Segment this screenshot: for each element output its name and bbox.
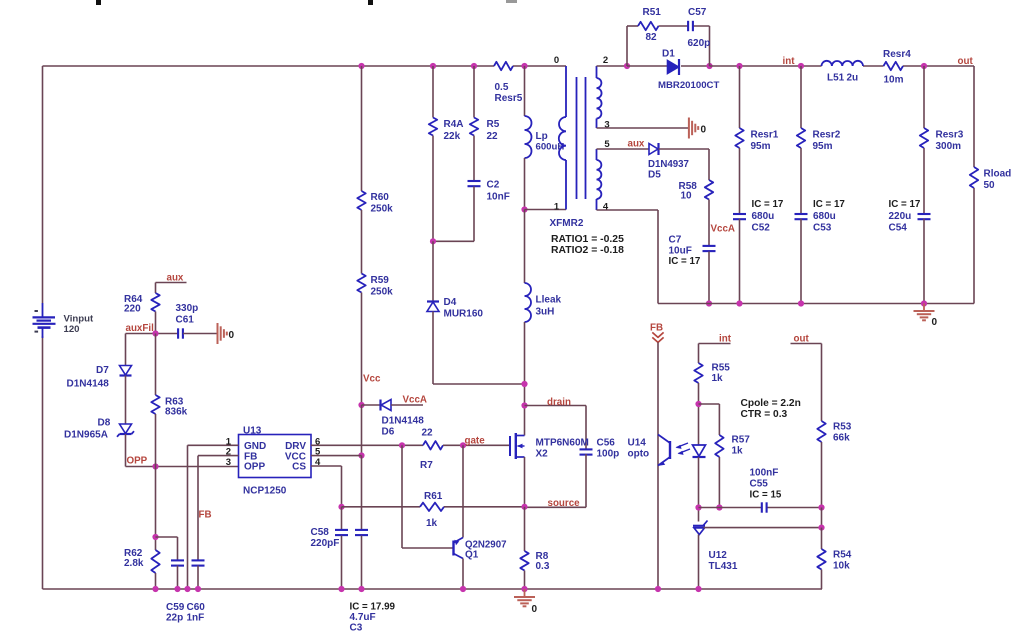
wire R63 branch: [155, 334, 157, 396]
wire Lleak upper: [524, 210, 526, 284]
svg-text:L51: L51: [827, 73, 845, 84]
net label int right: [719, 334, 732, 345]
net label auxFil: [126, 323, 155, 334]
node C3 ground: [358, 586, 364, 592]
wire R54 to rail: [821, 570, 823, 590]
wire R60 branch upper: [361, 66, 363, 191]
wire OPP to R62: [155, 467, 157, 551]
resistor Resr2 95m: [797, 128, 841, 152]
pin 0 label: [554, 55, 559, 66]
svg-text:Resr4: Resr4: [883, 49, 911, 60]
node ref junction: [818, 525, 824, 531]
wire pin2 to snubber: [597, 65, 628, 67]
svg-text:2u: 2u: [847, 73, 859, 84]
wire R5 upper: [473, 66, 475, 118]
wire Resr2 to C53: [800, 148, 802, 215]
wire TL431 anode to rail: [698, 535, 700, 590]
shunt regulator U12 TL431: [693, 521, 738, 573]
wire DRV pin6: [311, 444, 423, 446]
svg-text:D1N4937: D1N4937: [648, 159, 689, 170]
svg-text:opto: opto: [628, 449, 650, 460]
net label FB secondary: [650, 323, 663, 334]
label Vinput 120: [64, 314, 94, 335]
svg-text:aux: aux: [628, 139, 645, 150]
resistor R62 2.8k: [124, 548, 160, 573]
svg-text:XFMR2: XFMR2: [550, 218, 584, 229]
net label gate: [465, 436, 486, 447]
svg-text:3: 3: [226, 457, 231, 468]
wire Resr2 branch: [800, 66, 802, 128]
wire bottom ground rail: [43, 588, 823, 590]
transformer XFMR2 primary winding: [559, 66, 566, 210]
svg-text:D1N4148: D1N4148: [382, 416, 425, 427]
node top rail R4A: [430, 63, 436, 69]
op-amp U13 NCP1250 body: [239, 426, 312, 497]
wire Q1 base branch: [402, 445, 454, 548]
wire top rail: [43, 65, 567, 67]
svg-text:2: 2: [603, 55, 608, 66]
wire auxFil node: [126, 333, 178, 335]
capacitor C59 22p: [166, 560, 185, 623]
diode D4 MUR160: [427, 297, 483, 320]
net label aux primary: [167, 273, 184, 284]
pin 4 number: [315, 457, 321, 468]
wire C60 to rail: [197, 566, 199, 590]
svg-text:R57: R57: [732, 435, 751, 446]
net label aux secondary: [628, 139, 645, 150]
resistor R7 22: [420, 428, 443, 472]
svg-text:IC = 17: IC = 17: [669, 256, 701, 267]
wire Vcc to D6: [362, 404, 381, 406]
resistor Resr5 0.5: [494, 62, 523, 104]
node C58 rail: [338, 586, 344, 592]
resistor R51 82: [638, 7, 661, 43]
wire secondary bottom rail: [658, 303, 974, 305]
node opto emitter rail: [655, 586, 661, 592]
label Cpole CTR: [741, 398, 801, 420]
wire drain stub to C56: [525, 406, 587, 451]
capacitor C60 1nF: [187, 560, 206, 623]
net label FB primary: [199, 510, 212, 521]
net label drain: [547, 397, 571, 408]
svg-text:R55: R55: [712, 363, 731, 374]
wire D5 to R58: [659, 149, 710, 180]
svg-text:MUR160: MUR160: [444, 309, 484, 320]
resistor R53 66k: [817, 421, 851, 444]
svg-text:C52: C52: [752, 223, 771, 234]
wire C52 lower: [739, 219, 741, 304]
svg-text:Cpole = 2.2n: Cpole = 2.2n: [741, 398, 801, 409]
node R62 rail: [152, 586, 158, 592]
resistor R8 0.3: [520, 551, 550, 572]
inductor Lp 600uH: [525, 116, 565, 158]
wire Lp lower: [524, 158, 526, 210]
net label out top: [958, 56, 974, 67]
svg-text:22: 22: [487, 131, 499, 142]
svg-text:1: 1: [554, 202, 560, 213]
diode D5 D1N4937: [648, 143, 689, 181]
svg-text:OPP: OPP: [127, 456, 148, 467]
node snubber right: [706, 63, 712, 69]
svg-text:1k: 1k: [732, 446, 744, 457]
svg-text:D5: D5: [648, 170, 661, 181]
svg-text:10uF: 10uF: [669, 246, 692, 257]
capacitor C57 620p: [688, 7, 711, 49]
svg-text:D8: D8: [98, 418, 111, 429]
node R53 C55 junction: [818, 504, 824, 510]
svg-text:R54: R54: [833, 550, 852, 561]
svg-text:X2: X2: [536, 449, 549, 460]
label RATIO2: [551, 245, 624, 256]
node Resr2 top: [798, 63, 804, 69]
svg-text:VccA: VccA: [403, 395, 428, 406]
label RATIO1: [551, 234, 624, 245]
svg-text:R51: R51: [643, 7, 662, 18]
node top rail / R60 branch: [358, 63, 364, 69]
wire D4 to drain node: [433, 312, 525, 385]
svg-text:C7: C7: [669, 235, 682, 246]
node C59 rail: [174, 586, 180, 592]
wire C54 lower: [923, 219, 925, 304]
svg-text:R4A: R4A: [444, 119, 464, 130]
svg-text:C3: C3: [350, 623, 363, 634]
wire D7 to D8: [125, 376, 127, 425]
wire C59 to rail: [177, 566, 179, 590]
svg-text:22: 22: [422, 428, 434, 439]
wire D6 to VccA stub: [391, 404, 423, 406]
svg-text:0: 0: [701, 125, 707, 136]
svg-text:U14: U14: [628, 438, 647, 449]
wire Resr3 branch: [923, 66, 925, 128]
svg-text:MBR20100CT: MBR20100CT: [658, 80, 719, 91]
svg-text:4.7uF: 4.7uF: [350, 612, 376, 623]
wire R62 to rail: [155, 573, 157, 589]
svg-text:Resr2: Resr2: [813, 130, 841, 141]
wire Q1 collector to rail: [462, 559, 464, 590]
label XFMR2: [550, 218, 584, 229]
wire out stub: [791, 344, 822, 422]
transformer XFMR2 core: [577, 77, 586, 199]
resistor R63 836k: [151, 395, 187, 418]
node auxFil junction: [152, 330, 158, 336]
capacitor C61 330p: [176, 303, 199, 339]
pin 4 label: [603, 202, 609, 213]
svg-text:D1: D1: [662, 49, 675, 60]
wire R61 CS line: [342, 506, 421, 508]
svg-text:10nF: 10nF: [487, 192, 510, 203]
pin 3 number: [226, 457, 231, 468]
svg-text:66k: 66k: [833, 433, 850, 444]
svg-text:22k: 22k: [444, 131, 461, 142]
wire D8 to OPP: [125, 434, 127, 467]
capacitor C58 220pF: [311, 507, 349, 549]
svg-text:C59: C59: [166, 602, 185, 613]
svg-text:R60: R60: [371, 192, 390, 203]
svg-text:U13: U13: [243, 426, 262, 437]
svg-text:IC = 17: IC = 17: [813, 199, 845, 210]
node C52 rail: [736, 300, 742, 306]
wire R8 to rail: [524, 571, 526, 590]
svg-text:IC = 17.99: IC = 17.99: [350, 602, 396, 613]
node R55 R57 junction: [695, 401, 701, 407]
svg-text:FB: FB: [199, 510, 212, 521]
cropped title text remnants: [96, 0, 517, 5]
svg-text:C54: C54: [889, 223, 908, 234]
wire to R57: [699, 404, 720, 435]
svg-text:3: 3: [604, 120, 609, 131]
net label VccA left: [403, 395, 428, 406]
wire Resr1 to C52: [739, 148, 741, 215]
svg-text:CS: CS: [292, 462, 306, 473]
svg-text:D1N965A: D1N965A: [64, 430, 108, 441]
node top rail R5: [471, 63, 477, 69]
transformer XFMR2 secondary winding: [597, 66, 602, 128]
svg-text:CTR = 0.3: CTR = 0.3: [741, 409, 788, 420]
capacitor C7 10uF: [669, 235, 716, 268]
wire VCC pin5: [311, 455, 362, 457]
ground C61 0: [218, 323, 235, 344]
net label int top: [783, 56, 796, 67]
svg-text:100p: 100p: [597, 449, 620, 460]
svg-text:22p: 22p: [166, 613, 183, 624]
svg-text:R7: R7: [420, 460, 433, 471]
svg-text:2.8k: 2.8k: [124, 558, 144, 569]
pin 5 label: [604, 139, 610, 150]
diode D7 D1N4148: [67, 365, 132, 390]
wire GND pin1: [188, 445, 239, 589]
wire TL431 ref line: [704, 527, 822, 529]
capacitor C52 680u: [733, 199, 784, 234]
svg-text:Lp: Lp: [536, 131, 548, 142]
net label Vcc: [363, 374, 381, 385]
inductor Lleak 3uH: [525, 283, 562, 322]
resistor R57 1k: [715, 435, 750, 458]
diode D1 MBR20100CT: [658, 49, 719, 92]
svg-text:out: out: [958, 56, 974, 67]
svg-text:C61: C61: [176, 315, 195, 326]
svg-text:250k: 250k: [371, 204, 394, 215]
node OPP R63 junction: [152, 463, 158, 469]
svg-text:50: 50: [984, 180, 996, 191]
svg-text:VccA: VccA: [711, 224, 736, 235]
wire R55 to LED node: [698, 383, 700, 445]
wire FB pin2: [198, 456, 239, 561]
pin 1 number: [226, 436, 232, 447]
node DRV junction: [399, 442, 405, 448]
svg-text:836k: 836k: [165, 407, 188, 418]
node LED C55 junction: [695, 504, 701, 510]
svg-text:D7: D7: [96, 365, 109, 376]
svg-text:0.3: 0.3: [536, 561, 550, 572]
resistor R4A 22k: [429, 118, 464, 143]
svg-text:300m: 300m: [936, 141, 962, 152]
capacitor C54 220u: [889, 199, 931, 234]
svg-text:RATIO1 = -0.25: RATIO1 = -0.25: [551, 234, 624, 245]
svg-text:680u: 680u: [752, 211, 775, 222]
svg-text:100nF: 100nF: [750, 468, 779, 479]
wire mosfet source down: [524, 457, 526, 507]
svg-text:Resr3: Resr3: [936, 130, 964, 141]
transistor Q1 Q2N2907: [454, 538, 507, 561]
svg-text:RATIO2 = -0.18: RATIO2 = -0.18: [551, 245, 624, 256]
svg-text:10m: 10m: [884, 75, 904, 86]
svg-text:1k: 1k: [712, 373, 724, 384]
wire C58 to rail: [341, 536, 343, 590]
svg-text:int: int: [783, 56, 796, 67]
svg-text:95m: 95m: [813, 141, 833, 152]
svg-text:120: 120: [64, 324, 80, 335]
pin 5 number: [315, 447, 321, 458]
wire source to R8: [524, 507, 526, 551]
svg-text:R61: R61: [424, 491, 443, 502]
wire R53 to C55 node: [821, 442, 823, 508]
node gate junction: [460, 442, 466, 448]
capacitor C55 100nF: [750, 468, 782, 513]
svg-text:0: 0: [229, 330, 235, 341]
wire R4A lower: [432, 136, 434, 242]
svg-text:D6: D6: [382, 427, 395, 438]
svg-text:220: 220: [124, 304, 141, 315]
wire pin4 to secondary rail: [597, 210, 659, 304]
svg-text:C2: C2: [487, 180, 500, 191]
node GND rail: [184, 586, 190, 592]
battery Vinput V1: [33, 303, 56, 338]
wire R63 to OPP line: [155, 414, 157, 467]
node source junction: [521, 504, 527, 510]
wire R5 to C2: [473, 136, 475, 181]
wire C59 branch: [156, 537, 178, 561]
opto U14 transistor: [628, 435, 691, 466]
transistor X2 MTP6N60M mosfet: [510, 433, 589, 460]
svg-text:D1N4148: D1N4148: [67, 379, 110, 390]
wire LED to C55 line: [698, 457, 700, 522]
svg-text:C55: C55: [750, 479, 769, 490]
wire C7 to secondary rail: [708, 252, 710, 304]
node C7 rail junction: [706, 300, 712, 306]
svg-text:0: 0: [932, 317, 938, 328]
wire Lleak to drain: [524, 322, 526, 436]
svg-text:R5: R5: [487, 119, 500, 130]
svg-text:3uH: 3uH: [536, 307, 555, 318]
wire R4A upper: [432, 66, 434, 118]
pin 3 label: [604, 120, 609, 131]
svg-text:330p: 330p: [176, 303, 199, 314]
node primary bottom junction: [521, 206, 527, 212]
resistor R5 22: [470, 118, 500, 143]
wire output top rail: [710, 65, 975, 67]
wire R61 to source: [444, 506, 525, 508]
ground secondary 0: [689, 118, 707, 139]
wire gate to Q1 emitter: [462, 445, 464, 537]
svg-text:R59: R59: [371, 275, 390, 286]
svg-text:Rload: Rload: [984, 169, 1012, 180]
svg-text:95m: 95m: [751, 141, 771, 152]
resistor R61 1k: [420, 491, 444, 529]
svg-text:C58: C58: [311, 527, 330, 538]
svg-text:1k: 1k: [426, 518, 438, 529]
resistor R54 10k: [817, 549, 851, 572]
wire FB to opto collector: [657, 342, 659, 589]
svg-text:4: 4: [603, 202, 609, 213]
svg-text:0: 0: [532, 604, 538, 615]
resistor R59 250k: [357, 274, 393, 298]
wire left rail: [42, 66, 44, 589]
node VCC pin junction: [358, 452, 364, 458]
pin 1 label: [554, 202, 560, 213]
node Resr3 top: [921, 63, 927, 69]
transformer XFMR2 aux winding: [597, 149, 602, 210]
svg-text:C60: C60: [187, 602, 206, 613]
node drain junction: [521, 402, 527, 408]
svg-text:620p: 620p: [688, 38, 711, 49]
svg-text:auxFil: auxFil: [126, 323, 155, 334]
node CS junction: [338, 504, 344, 510]
resistor Resr3 300m: [920, 128, 964, 152]
resistor Resr1 95m: [735, 128, 778, 152]
wire between R60 and R59: [361, 210, 363, 274]
node snubber left: [624, 63, 630, 69]
net label source: [548, 498, 581, 509]
svg-text:source: source: [548, 498, 581, 509]
wire D1 anode segment: [627, 65, 668, 67]
node clamp junction: [430, 238, 436, 244]
net label VccA right: [711, 224, 736, 235]
wire C61 to ground: [183, 333, 218, 335]
wire pin3 to ground: [597, 127, 689, 129]
wire Vcc node to VCC pin: [361, 405, 363, 456]
svg-text:Q1: Q1: [465, 550, 479, 561]
node TL431 rail: [695, 586, 701, 592]
svg-text:82: 82: [646, 32, 658, 43]
node Resr1 top: [736, 63, 742, 69]
svg-text:0.5: 0.5: [495, 82, 509, 93]
wire CS pin4: [311, 466, 342, 507]
wire int stub: [699, 344, 731, 364]
wire auxFil down to D7: [125, 334, 127, 366]
wire Resr1 branch: [739, 66, 741, 128]
capacitor C3 4.7uF: [350, 530, 396, 634]
ground primary 0: [514, 589, 538, 615]
svg-text:IC = 17: IC = 17: [889, 199, 921, 210]
resistor Rload 50: [970, 167, 1011, 191]
svg-text:10: 10: [681, 191, 693, 202]
inductor L51 2u: [822, 61, 864, 84]
node C60 rail: [195, 586, 201, 592]
wire VCC pin to C3: [361, 456, 363, 530]
node Q1 rail: [460, 586, 466, 592]
svg-text:Lleak: Lleak: [536, 295, 562, 306]
wire R59 to Vcc node: [361, 293, 363, 406]
wire OPP to pin3: [126, 466, 239, 468]
svg-text:C57: C57: [688, 7, 707, 18]
wire Lp branch upper: [524, 66, 526, 116]
wire R7 to gate: [443, 444, 510, 446]
wire clamp to D4: [432, 241, 434, 301]
svg-text:FB: FB: [650, 323, 663, 334]
diode D8 D1N965A zener: [64, 418, 134, 441]
svg-text:D4: D4: [444, 297, 457, 308]
capacitor C53 680u: [795, 199, 846, 234]
svg-text:drain: drain: [547, 397, 571, 408]
svg-text:220pF: 220pF: [311, 538, 340, 549]
svg-text:680u: 680u: [813, 211, 836, 222]
svg-text:gate: gate: [465, 436, 486, 447]
svg-text:U12: U12: [709, 550, 728, 561]
capacitor C56 100p: [580, 438, 620, 460]
ground output 0: [914, 304, 938, 329]
net label out right: [794, 334, 810, 345]
node C53 rail: [798, 300, 804, 306]
